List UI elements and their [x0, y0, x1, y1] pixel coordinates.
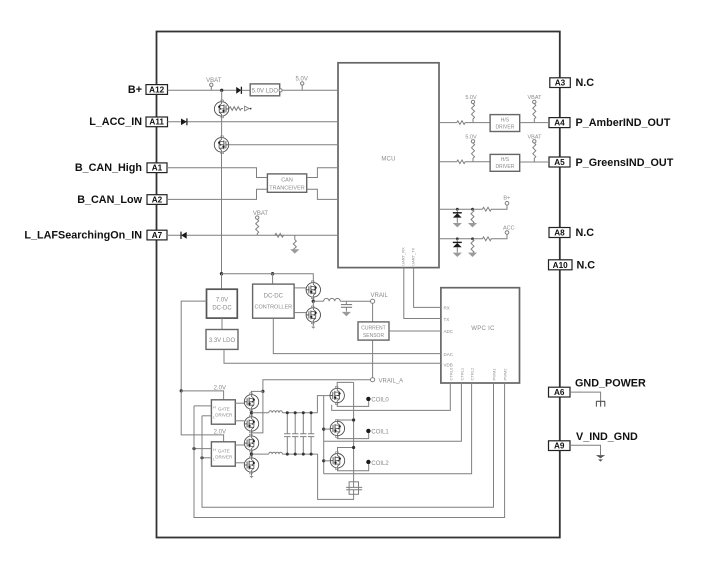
capacitor bank C3 [292, 413, 298, 454]
wire VRAIL_A feed to half-bridges [263, 380, 371, 392]
svg-text:DAC: DAC [444, 352, 454, 357]
zener diode to ground (ACC sense) [456, 239, 458, 242]
svg-text:WPC IC: WPC IC [471, 326, 495, 332]
wire driver1 gate high out [235, 402, 244, 404]
wire H/S driver 1 to A4 [520, 122, 549, 124]
wire 3.3V LDO to WPC VDB [224, 349, 441, 363]
capacitor C1 on VRAIL [345, 301, 347, 304]
svg-text:DRIVER: DRIVER [215, 413, 233, 418]
svg-text:VRAIL: VRAIL [371, 293, 389, 299]
svg-text:A6: A6 [554, 388, 565, 397]
svg-text:ACC: ACC [503, 225, 515, 231]
svg-text:A7: A7 [152, 231, 163, 240]
svg-text:VDB: VDB [444, 363, 453, 368]
wire driver2 H input [194, 448, 211, 450]
transistor Q6 (bridge1 low) [244, 415, 258, 433]
resistor pull-down to ground on A7 line [293, 235, 296, 251]
svg-text:COIL1: COIL1 [371, 430, 389, 436]
svg-text:SENSOR: SENSOR [363, 333, 385, 339]
svg-text:MCU: MCU [381, 156, 395, 162]
transistor Q10 (COIL1 switch) [322, 428, 325, 431]
resistor in series (B+ sense) [482, 205, 507, 211]
svg-text:N.C: N.C [576, 77, 595, 89]
diode D3 on L_LAFSearchingOn_IN (pointing left) [181, 232, 187, 239]
wire B_CAN_High from A1 [167, 168, 267, 178]
svg-text:CONTROLLER: CONTROLLER [255, 304, 293, 310]
svg-text:VRAIL_A: VRAIL_A [379, 379, 404, 385]
transistor Q4 (buck low-side) [306, 306, 320, 324]
ground (earth style) at A9 [596, 455, 605, 458]
resistor on Q1 gate with arrow [229, 107, 243, 111]
right pin A10 [549, 260, 573, 270]
wire current sensor to VRAIL_A [372, 340, 374, 378]
wire 7.0V DC-DC output to gate drivers rail [181, 301, 206, 391]
svg-text:B_CAN_Low: B_CAN_Low [77, 194, 142, 206]
junction resistor tap (B+ sense) [471, 208, 474, 211]
inductor L3 (bridge2) [252, 453, 269, 455]
node VBAT distribution [220, 272, 223, 275]
svg-text:CTRL2: CTRL2 [470, 367, 475, 380]
transistor Q1 (reverse-protection FET) [221, 90, 223, 101]
wire B_CAN_Low from A2 [167, 189, 267, 199]
connector outline (module boundary) [157, 32, 560, 538]
wire phase rail riser to coil bus [317, 396, 323, 413]
wire driver2 L input [202, 457, 211, 459]
wire driver2 gate low out [235, 462, 244, 464]
wire PWM1 from WPC to drivers L [202, 383, 494, 507]
regulator 3.3V LDO [206, 330, 238, 350]
CAN transceiver U3 [267, 174, 306, 192]
svg-text:A4: A4 [554, 119, 565, 128]
wire Q11 source to COIL2 [338, 464, 369, 471]
transistor Q7 (bridge2 high) [244, 434, 258, 452]
svg-text:L_LAFSearchingOn_IN: L_LAFSearchingOn_IN [24, 230, 142, 242]
junction diode tap (B+ sense) [456, 208, 459, 211]
svg-text:A8: A8 [554, 229, 565, 238]
svg-text:A3: A3 [555, 79, 566, 88]
transistor Q3 (buck high-side) [306, 281, 320, 299]
capacitor bank C5 [308, 413, 314, 454]
wire A9 to signal ground [570, 445, 601, 455]
svg-text:7.0V: 7.0V [216, 298, 228, 304]
wire MCU to H/S driver 2 [439, 161, 457, 163]
transistor Q5 (bridge1 high) [244, 393, 258, 411]
wire H/S driver 2 to A5 [520, 161, 549, 163]
junction resistor tap (ACC sense) [471, 237, 474, 240]
svg-text:P_AmberIND_OUT: P_AmberIND_OUT [576, 117, 671, 129]
svg-text:TX: TX [444, 317, 450, 322]
transistor Q9 (COIL0 switch) [324, 395, 330, 397]
transistor Q11 (COIL2 switch) [322, 459, 325, 462]
svg-text:A12: A12 [149, 85, 164, 94]
svg-text:GATE: GATE [218, 448, 230, 453]
DC-DC controller U6 [253, 284, 295, 318]
wire Q10 source to COIL1 [337, 433, 368, 439]
wire L_LAFSearchingOn_IN from A7 to MCU [167, 234, 338, 236]
left pin A1 [147, 163, 167, 173]
svg-text:2.0V: 2.0V [214, 430, 226, 436]
capacitor bank C2 [284, 413, 290, 454]
wire driver1 gate low out [235, 420, 244, 422]
wire driver1 H input [194, 405, 211, 407]
wire Q3 source to switch node [312, 297, 314, 301]
gate driver U8 [211, 400, 235, 424]
svg-text:N.C: N.C [577, 259, 596, 271]
svg-text:3.3V LDO: 3.3V LDO [209, 338, 236, 344]
svg-text:A5: A5 [554, 158, 565, 167]
gate driver U9 [211, 442, 235, 466]
wire driver2 gate high out [235, 444, 244, 446]
wire VRAIL to current sensor [372, 303, 374, 322]
ground (chassis style) at A6 [596, 401, 605, 406]
wire Q9 source to COIL0 [337, 401, 369, 406]
node buck switch [312, 300, 315, 303]
wire Q8 source stub [251, 472, 253, 476]
wire controller gate high [294, 287, 306, 289]
svg-text:H: H [213, 404, 216, 409]
wire Q9 drain to series column [337, 382, 353, 388]
svg-text:CAN: CAN [281, 178, 293, 184]
inductor L2 (bridge1) [252, 412, 269, 414]
wire driver1 L input [202, 415, 211, 417]
ground (arrow style) below A7 pull-down [290, 249, 299, 253]
wire PWM2 from WPC to drivers H [194, 383, 505, 518]
resistor in series (row 2) [457, 160, 490, 164]
right pin A8 [549, 228, 570, 238]
ground below resistor (B+ sense) [468, 223, 477, 227]
svg-text:5.0V LDO: 5.0V LDO [252, 89, 279, 95]
wire CAN RXD to MCU [307, 189, 338, 199]
resistor in series (ACC sense) [482, 234, 507, 240]
wire Q11 drain to series column [338, 448, 354, 454]
left pin A2 [147, 195, 167, 205]
svg-text:A11: A11 [149, 118, 164, 127]
wire Q1 source to Q2 drain [221, 116, 223, 138]
wire Q4 source stub [312, 322, 314, 326]
wire CTRL0 from WPC to Q9 gate [332, 383, 451, 410]
wire controller gate low [294, 312, 306, 314]
wire LDO output to MCU [282, 89, 338, 91]
wire CTRL1 from WPC to coil gate bus [324, 383, 462, 441]
svg-text:DRIVER: DRIVER [215, 454, 233, 459]
svg-text:UART_RX: UART_RX [401, 247, 406, 266]
svg-text:N.C: N.C [576, 227, 595, 239]
svg-text:P_GreensIND_OUT: P_GreensIND_OUT [576, 157, 674, 169]
node phase 2 [251, 450, 253, 457]
node COIL0 [366, 397, 370, 401]
svg-text:B+: B+ [128, 84, 142, 96]
right pin A9 [549, 441, 571, 451]
WPC IC U2 [441, 288, 520, 383]
wire VBAT node to buck FET [222, 274, 314, 283]
wire 7.0V rail to driver 2 [181, 391, 223, 442]
svg-text:B_CAN_High: B_CAN_High [75, 162, 142, 174]
wire A6 to power ground [570, 392, 601, 401]
svg-text:B+: B+ [503, 196, 510, 202]
wire Q2 source down to DC-DC node [221, 152, 223, 274]
wire node into DC-DC controller [272, 274, 274, 284]
wire bottom rail return to resonant cap [318, 454, 354, 499]
wire controller to WPC DAC [273, 318, 441, 353]
svg-text:A10: A10 [553, 261, 568, 270]
current sensor U7 [358, 322, 389, 340]
wire MCU ACC sense line [439, 238, 482, 240]
right pin A3 [550, 78, 571, 88]
junction B+ node [220, 89, 223, 92]
left pin A7 [147, 230, 167, 240]
wire CTRL2 from WPC to coil gate bus [324, 383, 472, 474]
resistor to ground (ACC sense) [471, 239, 474, 254]
transistor Q8 (bridge2 low) [244, 456, 258, 474]
svg-text:L_ACC_IN: L_ACC_IN [89, 116, 142, 128]
series column to resonant cap [353, 382, 355, 481]
svg-text:COIL2: COIL2 [371, 461, 389, 467]
svg-text:DRIVER: DRIVER [495, 164, 514, 170]
right pin A6 [549, 387, 571, 397]
coil gate bus [323, 396, 325, 474]
diode D2 on L_ACC_IN [181, 119, 187, 126]
svg-text:H: H [213, 447, 216, 452]
svg-text:GND_POWER: GND_POWER [575, 378, 646, 390]
regulator 5.0V LDO [250, 84, 280, 96]
H/S driver U4 [490, 115, 520, 132]
wire Q10 drain to series column [337, 420, 353, 421]
svg-text:ADC: ADC [444, 329, 454, 334]
svg-text:CURRENT: CURRENT [361, 325, 385, 331]
ground below resistor (ACC sense) [468, 253, 477, 257]
left pin A11 [146, 117, 168, 127]
svg-text:PWM1: PWM1 [492, 368, 497, 381]
ground below C1 [342, 312, 351, 316]
node COIL1 [366, 429, 370, 433]
wire Q6 source to VRAIL_A column [251, 431, 253, 433]
svg-text:H/S: H/S [501, 157, 510, 163]
wire Q2 gate to MCU [229, 144, 338, 146]
junction 7.0V rail to driver 1 [180, 389, 183, 392]
svg-text:5.0V: 5.0V [465, 95, 477, 101]
svg-text:CTRL1: CTRL1 [459, 367, 464, 380]
MCU U1 [338, 63, 439, 268]
wire MCU B+ sense line [439, 208, 482, 210]
svg-text:A1: A1 [152, 164, 163, 173]
right pin A5 [549, 157, 570, 167]
ground below zener (ACC sense) [453, 253, 462, 257]
svg-text:VBAT: VBAT [253, 211, 269, 217]
regulator 7.0V DC-DC [207, 289, 238, 318]
diode D1 on B+ line [236, 87, 241, 94]
svg-text:RX: RX [444, 306, 450, 311]
inductor L1 (buck) [313, 300, 323, 302]
capacitor bank C4 [300, 413, 306, 454]
resistor in series on A7 line [275, 233, 284, 237]
right pin A4 [549, 118, 570, 128]
svg-text:VBAT: VBAT [206, 78, 222, 84]
svg-text:V_IND_GND: V_IND_GND [576, 431, 638, 443]
node VRAIL_A [371, 378, 375, 382]
resistor to ground (B+ sense) [471, 209, 474, 224]
svg-text:DRIVER: DRIVER [495, 124, 514, 130]
wire CAN TXD to MCU [307, 168, 338, 178]
wire 7.0V DC-DC to 3.3V LDO [221, 318, 223, 329]
node COIL2 [366, 460, 370, 464]
svg-text:PWM2: PWM2 [503, 368, 508, 381]
ground below zener (B+ sense) [453, 223, 462, 227]
wire MCU to H/S driver 1 [439, 122, 457, 124]
svg-text:A9: A9 [554, 442, 565, 451]
wire B+ from A12 [168, 89, 237, 91]
svg-text:H/S: H/S [501, 117, 510, 123]
wire resonant cap bottom [353, 494, 355, 497]
resistor in series (row 1) [457, 121, 490, 125]
svg-text:UART_TX: UART_TX [410, 247, 415, 265]
left pin A12 [146, 85, 168, 95]
svg-text:A2: A2 [152, 196, 163, 205]
svg-text:COIL0: COIL0 [371, 398, 389, 404]
wire current sensor to WPC ADC [389, 330, 441, 332]
svg-text:CTRL0: CTRL0 [448, 367, 453, 380]
node phase 1 [251, 409, 253, 417]
svg-text:TRANCEIVER: TRANCEIVER [269, 185, 304, 191]
transistor Q2 [214, 136, 228, 154]
wire node into 7.0V DC-DC [221, 274, 223, 290]
junction diode tap (ACC sense) [456, 237, 459, 240]
svg-text:5.0V: 5.0V [465, 135, 477, 141]
wire L_ACC_IN from A11 to MCU [168, 121, 339, 123]
svg-text:DC-DC: DC-DC [264, 294, 284, 300]
H/S driver U5 [490, 154, 520, 171]
zener diode to ground (B+ sense) [456, 209, 458, 212]
svg-text:GATE: GATE [218, 407, 230, 412]
resonant capacitor C6 [349, 482, 358, 495]
svg-text:DC-DC: DC-DC [212, 306, 232, 312]
